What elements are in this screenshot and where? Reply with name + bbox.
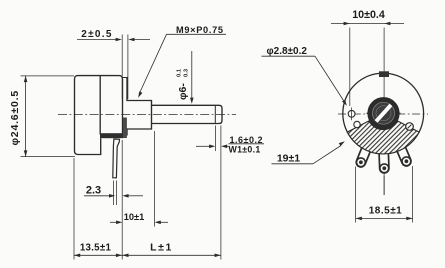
svg-text:18.5±1: 18.5±1 (369, 206, 403, 217)
svg-text:2±0.5: 2±0.5 (81, 29, 112, 40)
svg-text:0.1: 0.1 (177, 68, 183, 77)
svg-text:φ24.6±0.5: φ24.6±0.5 (9, 90, 21, 146)
svg-text:W1±0.1: W1±0.1 (229, 144, 261, 154)
svg-text:19±1: 19±1 (277, 153, 300, 165)
svg-text:10±1: 10±1 (124, 212, 145, 222)
svg-text:M9×P0.75: M9×P0.75 (176, 25, 224, 35)
svg-text:0.3: 0.3 (183, 68, 189, 77)
svg-text:13.5±1: 13.5±1 (80, 243, 112, 254)
svg-text:2.3: 2.3 (86, 185, 101, 197)
svg-text:φ2.8±0.2: φ2.8±0.2 (267, 46, 308, 57)
svg-text:φ6-: φ6- (177, 83, 189, 100)
svg-text:10±0.4: 10±0.4 (352, 9, 385, 21)
svg-text:L±1: L±1 (150, 242, 173, 254)
